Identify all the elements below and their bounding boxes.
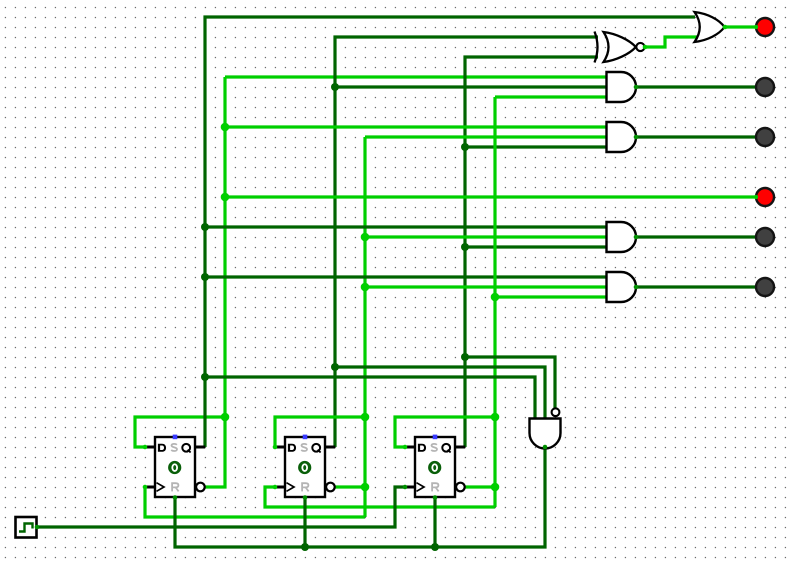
junction (205,277)	[201, 273, 209, 281]
junction (365,487)	[361, 483, 370, 492]
wire clock net (dark, from clock source to FF3 clock)	[37, 487, 405, 527]
junction (365,287)	[361, 283, 370, 292]
wire riser !Q1 (bright vertical x=225)	[205, 77, 225, 487]
wire net CLK1 (bright, FF1 clock from !Q2)	[145, 487, 365, 517]
wire !Q2 branch y=237 to AND3	[365, 235, 607, 238]
wire Q2 branch y=87 to AND1	[335, 85, 607, 88]
junction (465,357)	[461, 353, 469, 361]
wire !Q3 branch y=97 to AND1	[495, 95, 607, 98]
wire net D1 (bright, FF1 D loop upper-left segment)	[135, 417, 225, 447]
wire riser Q2 (dark vertical x=335 and top run to XNOR input)	[335, 37, 598, 447]
xnor-gate X1 (inputs Q2,Q3)	[595, 32, 648, 63]
nand-gate N1 (vertical 3-input AND with inverted input, output to reset net)	[530, 408, 561, 449]
wire net CLK2 (bright, FF2 clock from !Q3)	[265, 487, 495, 507]
junction (465,147)	[461, 143, 469, 151]
wire Q1 branch y=227 to AND3	[205, 225, 607, 228]
wire AND4 output to LED L6	[636, 285, 756, 288]
junction (205,377)	[201, 373, 209, 381]
wire riser Q1 (dark vertical x=205 and top run to OR gate)	[205, 17, 695, 447]
wire OR output to LED L1	[724, 25, 756, 28]
wire riser Q3 (dark vertical x=465 and top run to XNOR input)	[465, 57, 598, 447]
wire AND2 output to LED L3	[636, 135, 756, 138]
wire !Q2 branch y=137 to AND2	[365, 135, 607, 138]
wire Q1 branch y=377 to NAND input	[205, 377, 535, 419]
wire AND1 output to LED L2	[636, 85, 756, 88]
wire riser !Q3 (bright vertical x=495)	[465, 97, 495, 507]
and-gate A3 (row y=237)	[607, 222, 639, 252]
wire !Q1 branch y=77 to AND1	[225, 75, 607, 78]
LED L3 (off, dark)	[756, 128, 774, 146]
wire AND3 output to LED L5	[636, 235, 756, 238]
LED L4 (lit, red)	[754, 188, 774, 206]
wire !Q1 branch y=127 to AND2	[225, 125, 607, 128]
or-gate O1 (output to LED L1)	[695, 12, 728, 42]
wire Q2 branch y=367 to NAND input	[335, 367, 545, 419]
wire !Q1 branch y=197 to LED L4	[225, 195, 756, 198]
junction (225,127)	[221, 123, 230, 132]
wire Q3 branch y=357 to NAND inverted input	[465, 357, 555, 408]
junction (465,247)	[461, 243, 469, 251]
flip-flop FF1 (D flip-flop, state 0)	[143, 435, 205, 500]
wire net D3 (bright, FF3 D loop)	[395, 417, 495, 447]
junction (305,547)	[301, 543, 309, 551]
and-gate A4 (row y=287)	[607, 272, 639, 302]
wire !Q3 branch y=297 to AND4	[495, 295, 607, 298]
junction (365,417)	[361, 413, 370, 422]
junction (495,417)	[491, 413, 500, 422]
LED L5 (off, dark)	[756, 228, 774, 246]
junction (495,487)	[491, 483, 500, 492]
and-gate A2 (row y=137)	[607, 122, 639, 152]
flip-flop FF2 (D flip-flop, state 0)	[273, 435, 335, 500]
wire net D2 (bright, FF2 D loop)	[275, 417, 365, 447]
junction (335,367)	[331, 363, 339, 371]
LED L6 (off, dark)	[756, 278, 774, 296]
wire Q3 branch y=247 to AND3	[465, 245, 607, 248]
flip-flop FF3 (D flip-flop, state 0)	[403, 435, 465, 500]
clock source CLK	[16, 517, 40, 538]
junction (365,237)	[361, 233, 370, 242]
junction (225,417)	[221, 413, 230, 422]
junction (205,227)	[201, 223, 209, 231]
wire XNOR output jog to OR input	[645, 37, 697, 47]
wire Q3 branch y=147 to AND2	[465, 145, 607, 148]
wire reset net (dark, NAND output to R pins of FF1 FF2 FF3)	[175, 447, 545, 547]
junction (225,197)	[221, 193, 230, 202]
junction (435,547)	[431, 543, 439, 551]
wire Q1 branch y=277 to AND4	[205, 275, 607, 278]
junction (335,87)	[331, 83, 339, 91]
wire riser !Q2 (bright vertical x=365)	[335, 137, 365, 517]
LED L1 (lit, red)	[754, 18, 774, 36]
junction (495,297)	[491, 293, 500, 302]
LED L2 (off, dark)	[756, 78, 774, 96]
and-gate A1 (row y=87)	[607, 72, 639, 102]
wire !Q2 branch y=287 to AND4	[365, 285, 607, 288]
